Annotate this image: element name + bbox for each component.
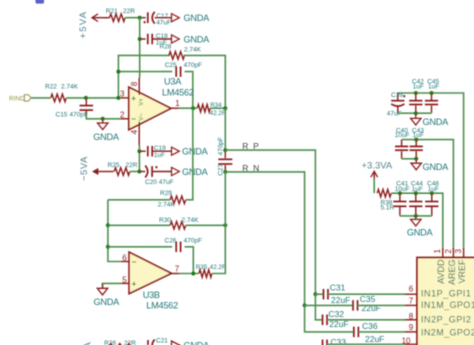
wire R28 feedback loop (left leg down to pin3) <box>118 55 170 98</box>
pin 8 stub <box>405 319 418 321</box>
ground GNDA (AREG bank) <box>415 159 417 163</box>
svg-text:AREG: AREG <box>447 260 457 286</box>
wire R30 row <box>108 224 170 226</box>
pin 6 stub <box>121 261 130 263</box>
pin 10 stub <box>405 343 418 345</box>
IC U? (ADC) body <box>417 258 474 345</box>
svg-text:−5VA: −5VA <box>79 156 90 181</box>
wire C25 row <box>118 71 172 73</box>
svg-text:2: 2 <box>120 110 125 119</box>
node: junction output/C25-R29 vertical <box>191 106 195 110</box>
capacitor C27 470pF (between R_P and R_N) <box>224 150 226 158</box>
capacitor C25 470pF <box>175 66 177 77</box>
svg-text:3: 3 <box>454 249 463 254</box>
svg-text:6: 6 <box>409 284 414 293</box>
ground GNDA at pin 5 <box>103 283 121 288</box>
capacitor C15 470pF (vertical) <box>85 98 87 105</box>
svg-text:C15: C15 <box>56 111 68 118</box>
svg-text:1: 1 <box>433 249 442 254</box>
svg-text:R21: R21 <box>106 8 118 15</box>
capacitor C42 1uF <box>415 93 417 100</box>
svg-text:10uF: 10uF <box>395 186 410 193</box>
svg-text:AVDD: AVDD <box>436 259 446 284</box>
wire R34 to R_P node <box>210 107 225 109</box>
svg-text:C32: C32 <box>328 309 344 319</box>
wire +3.3VA down to R38 <box>373 179 375 193</box>
pin 1 AVDD <box>442 247 444 257</box>
wire R_P leg to C32 <box>315 294 322 320</box>
svg-text:GNDA: GNDA <box>407 227 434 237</box>
capacitor C45 1uF <box>431 93 433 100</box>
pin 5 stub <box>121 282 130 284</box>
resistor R38 5.1R <box>377 189 391 197</box>
svg-text:GNDA: GNDA <box>184 13 211 23</box>
wire R_N leg to C36 <box>305 305 354 332</box>
wire VREF cap bank top <box>398 93 464 247</box>
svg-text:8: 8 <box>409 312 414 321</box>
svg-text:R28: R28 <box>160 44 172 51</box>
svg-text:R29: R29 <box>160 190 172 197</box>
node: junction R28/R34/R_P vertical <box>223 106 227 110</box>
node: junction C25/pin3 vertical <box>116 70 120 74</box>
svg-text:1uF: 1uF <box>154 152 165 159</box>
capacitor C44 1uF <box>415 193 417 201</box>
svg-text:470pF: 470pF <box>184 62 202 69</box>
node: junction pin3 / R28 <box>116 96 120 100</box>
svg-text:C27: C27 <box>218 163 225 175</box>
svg-text:1uF: 1uF <box>428 186 439 193</box>
pin 4 stub (V-) <box>138 122 140 146</box>
svg-text:1: 1 <box>175 99 180 108</box>
svg-text:2.74K: 2.74K <box>184 47 202 54</box>
capacitor C31 22uF <box>322 289 324 300</box>
svg-text:470pF: 470pF <box>184 238 202 245</box>
node: junction bank3 gnd <box>414 214 418 218</box>
svg-text:5.1R: 5.1R <box>381 205 395 212</box>
svg-text:2.74K: 2.74K <box>158 202 176 209</box>
capacitor C40 10uF <box>401 140 403 147</box>
wire output down to R_P row <box>224 108 226 150</box>
op-amp U3A LM4562 <box>129 87 171 130</box>
resistor R34 42.2R <box>197 104 210 112</box>
pin 9 stub <box>405 331 418 333</box>
svg-text:C21: C21 <box>156 337 168 344</box>
svg-text:+3.3VA: +3.3VA <box>362 160 393 171</box>
svg-text:+: + <box>132 280 137 289</box>
svg-text:GNDA: GNDA <box>423 162 450 172</box>
wire left input rail of U3B <box>108 200 121 262</box>
svg-text:IN1M_GPO1: IN1M_GPO1 <box>421 300 474 310</box>
node: junction C45 top <box>430 91 434 95</box>
svg-text:10uF: 10uF <box>395 132 410 139</box>
wire U3B output <box>180 273 199 275</box>
svg-text:4: 4 <box>130 129 139 134</box>
svg-text:22uF: 22uF <box>329 319 348 329</box>
node: junction C44 top <box>414 191 418 195</box>
svg-text:22uF: 22uF <box>362 303 381 313</box>
pin 8 stub (V+) <box>138 78 140 96</box>
wire R35 up to R_N vertical <box>212 172 225 274</box>
svg-text:1uF: 1uF <box>428 84 439 91</box>
svg-text:7: 7 <box>409 296 414 305</box>
svg-text:GNDA: GNDA <box>182 147 209 157</box>
pin 2 AREG <box>452 247 454 257</box>
node: junction C48 top <box>430 191 434 195</box>
svg-text:22uF: 22uF <box>331 295 350 305</box>
wire C25 right leg down to output <box>185 72 193 109</box>
svg-text:−: − <box>131 115 136 124</box>
svg-text:2.74K: 2.74K <box>61 84 79 91</box>
resistor R29 2.74K <box>170 196 186 204</box>
capacitor C48 1uF <box>431 193 433 201</box>
svg-text:IN2P_GPI2: IN2P_GPI2 <box>421 315 471 325</box>
node: junction C15 tap <box>84 96 88 100</box>
pin 3 stub <box>121 97 130 99</box>
resistor R35 42.2R <box>199 270 212 278</box>
wire C26 right leg down to U3B output <box>185 247 194 274</box>
pin 1 output stub <box>171 107 179 109</box>
node: junction C43 top <box>414 138 418 142</box>
svg-text:VREF: VREF <box>457 259 467 284</box>
svg-text:C26: C26 <box>165 238 177 245</box>
svg-text:6: 6 <box>122 253 127 262</box>
svg-text:3: 3 <box>120 90 125 99</box>
capacitor C20 47uF (polarized) <box>151 166 153 177</box>
wire R38 to AVDD <box>391 193 443 247</box>
svg-text:C39: C39 <box>391 92 403 99</box>
pin 7 output stub <box>171 273 179 275</box>
svg-text:1uF: 1uF <box>413 132 424 139</box>
capacitor C17 47uF (polarized) <box>147 12 149 23</box>
wire +5VA to R21 <box>105 17 110 19</box>
wire U3A output <box>179 107 197 109</box>
capacitor C33 22uF (cut off at bottom) <box>322 340 324 345</box>
node: junction bank1 gnd <box>414 111 418 115</box>
svg-text:+5VA: +5VA <box>78 11 89 39</box>
svg-text:22uF: 22uF <box>365 334 384 344</box>
capacitor C19 1uF <box>147 146 149 157</box>
svg-text:C25: C25 <box>165 62 177 69</box>
svg-text:GNDA: GNDA <box>184 34 211 44</box>
svg-text:RIND: RIND <box>9 96 25 103</box>
svg-text:470pF: 470pF <box>70 111 88 118</box>
ground GNDA (row1) <box>172 14 180 22</box>
svg-text:47uF: 47uF <box>156 20 171 27</box>
svg-text:GNDA: GNDA <box>184 341 211 345</box>
wire AREG bank bottom <box>402 158 417 160</box>
resistor R22 2.74K <box>51 94 66 102</box>
pin 2 stub <box>121 118 130 120</box>
svg-text:1uF: 1uF <box>413 84 424 91</box>
node: junction R_N <box>223 170 227 174</box>
wire pin4 rail <box>138 146 140 172</box>
svg-text:+: + <box>131 94 136 103</box>
wire AVDD bank bottom <box>400 215 432 217</box>
ground GNDA (C19) <box>172 147 180 155</box>
svg-text:8: 8 <box>130 81 139 86</box>
svg-text:470pF: 470pF <box>218 137 225 155</box>
node: junction R_P/C31 <box>313 292 317 296</box>
wire R29 row <box>108 199 170 201</box>
node: junction +5VA rail / C17 <box>138 16 142 20</box>
wire R22 to U3A pin 3 <box>67 97 121 99</box>
svg-text:GNDA: GNDA <box>94 297 121 307</box>
ground GNDA (bottom, cut) <box>172 341 181 345</box>
svg-text:−: − <box>132 257 137 266</box>
capacitor C36 22uF <box>353 327 355 338</box>
capacitor C18 1uF <box>147 34 149 45</box>
capacitor C32 22uF <box>322 315 324 326</box>
wire C18 to GNDA <box>152 38 171 40</box>
svg-text:IN1P_GPI1: IN1P_GPI1 <box>421 289 471 299</box>
svg-text:2.74K: 2.74K <box>182 217 200 224</box>
svg-text:2: 2 <box>444 249 453 254</box>
node: junction C42 top <box>414 91 418 95</box>
wire pin6 row <box>315 293 323 295</box>
node: junction R30 tap <box>106 223 110 227</box>
capacitor C35 22uF <box>352 300 354 311</box>
wire +5VA rail vertical to U3A pin 8 <box>139 18 141 78</box>
wire R25 to pin4 rail <box>130 171 140 173</box>
node: junction R_N/C35 <box>303 303 307 307</box>
svg-text:R22: R22 <box>45 84 57 91</box>
svg-text:47uF: 47uF <box>387 111 402 118</box>
resistor R21 <box>110 14 126 22</box>
svg-text:5: 5 <box>122 276 127 285</box>
node: junction R30/R_N vertical <box>223 223 227 227</box>
wire R_N <box>225 172 304 306</box>
resistor R25 22R <box>114 168 130 176</box>
svg-text:7: 7 <box>175 265 180 274</box>
pin 7 stub <box>405 304 418 306</box>
svg-text:U3A: U3A <box>164 77 182 87</box>
node: junction C41 top <box>398 191 402 195</box>
svg-text:LM4562: LM4562 <box>162 87 194 97</box>
svg-text:22R: 22R <box>126 162 138 169</box>
node: junction C19 <box>137 149 141 153</box>
wire RIND to R22 <box>31 97 50 99</box>
svg-text:LM4562: LM4562 <box>146 301 178 311</box>
ground GNDA (AVDD bank) <box>415 216 417 220</box>
capacitor C21 (cut) <box>147 340 149 345</box>
svg-text:C20 47uF: C20 47uF <box>145 179 174 186</box>
ground GNDA (VREF bank) <box>415 113 417 118</box>
resistor R30 2.74K <box>170 222 186 230</box>
svg-text:1uF: 1uF <box>412 186 423 193</box>
node: junction C18 tap <box>138 37 142 41</box>
svg-text:GNDA: GNDA <box>93 132 120 142</box>
wire C26 row <box>108 246 172 248</box>
svg-text:42.2R: 42.2R <box>210 110 227 117</box>
capacitor C39 47uF (polarized) <box>397 93 399 100</box>
node: junction U3B out / C26 <box>191 272 195 276</box>
node: junction bank2 gnd <box>414 157 418 161</box>
capacitor C41 10uF <box>399 193 401 201</box>
ground GNDA under pin 2 <box>102 119 104 123</box>
pin 6 stub <box>405 293 418 295</box>
svg-text:C36: C36 <box>362 321 378 331</box>
wire VREF bank bottom <box>398 112 432 114</box>
svg-text:IN2M_GPO2: IN2M_GPO2 <box>421 327 474 337</box>
svg-text:42.2R: 42.2R <box>210 264 227 271</box>
svg-text:R30: R30 <box>159 217 171 224</box>
svg-text:U3B: U3B <box>143 290 160 300</box>
capacitor C26 470pF <box>175 242 177 253</box>
resistor R28 2.74K <box>169 52 185 60</box>
wire R_P <box>225 150 315 294</box>
svg-text:GNDA: GNDA <box>423 117 450 127</box>
svg-text:9: 9 <box>409 323 414 332</box>
node: junction C20/R25 <box>137 170 141 174</box>
svg-text:V−: V− <box>139 113 145 121</box>
pin 3 VREF <box>463 247 465 257</box>
svg-text:V+: V+ <box>139 98 145 106</box>
node: junction pin2/C15/GNDA <box>101 117 105 121</box>
svg-text:22R: 22R <box>123 8 135 15</box>
wire R29 right leg up to U3A output <box>186 108 193 200</box>
wire AREG cap bank top <box>402 140 454 248</box>
node: junction R_P <box>223 148 227 152</box>
svg-text:C31: C31 <box>330 283 346 293</box>
wire pin7 row <box>305 304 353 306</box>
svg-text:R25: R25 <box>108 162 120 169</box>
capacitor C43 1uF <box>415 140 417 147</box>
wire C15 bottom to pin2 node <box>86 114 120 119</box>
svg-text:10: 10 <box>402 337 411 345</box>
wire R21 to C17 <box>125 17 142 19</box>
wire R28 right leg down to output <box>183 55 225 108</box>
node: junction C26 tap <box>106 245 110 249</box>
ground GNDA (C20) <box>172 167 180 175</box>
svg-text:GNDA: GNDA <box>182 167 209 177</box>
op-amp U3B LM4562 <box>129 252 171 294</box>
wire C17 to GNDA <box>155 17 172 19</box>
ground GNDA (row2) <box>172 35 180 43</box>
blue UI fragment (cut off at top edge) <box>36 0 45 4</box>
svg-text:R35: R35 <box>196 264 208 271</box>
